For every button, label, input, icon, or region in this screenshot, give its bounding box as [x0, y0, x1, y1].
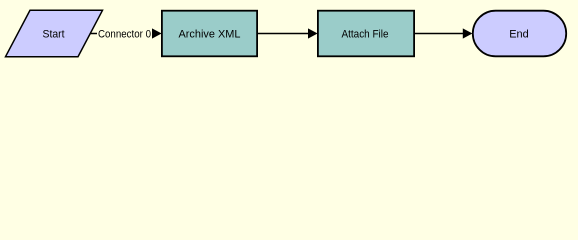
arrowhead into Archive XML [153, 29, 161, 38]
connector label Connector 0 [97, 27, 152, 41]
arrowhead into Attach File [309, 29, 317, 38]
svg-text:Archive XML: Archive XML [179, 29, 241, 41]
end step End (stadium) [473, 11, 566, 57]
wire Archive XML to Attach File [257, 33, 316, 35]
start step Start (parallelogram) [6, 10, 103, 56]
wire Attach File to End [414, 33, 471, 35]
step box Attach File [318, 11, 414, 57]
svg-text:Start: Start [43, 29, 65, 41]
svg-text:Attach File: Attach File [342, 29, 389, 41]
wire Start to Archive XML [88, 33, 160, 35]
svg-text:Connector 0: Connector 0 [98, 29, 151, 41]
arrowhead into End [463, 29, 471, 38]
svg-text:End: End [509, 29, 529, 41]
step box Archive XML [162, 11, 257, 57]
canvas background [0, 0, 578, 66]
